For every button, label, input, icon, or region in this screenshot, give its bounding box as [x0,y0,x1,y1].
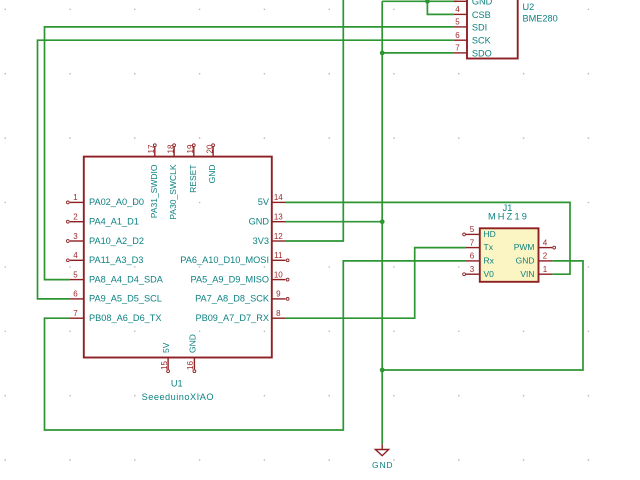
svg-text:PA8_A4_D4_SDA: PA8_A4_D4_SDA [89,274,164,284]
svg-text:17: 17 [147,144,156,153]
svg-text:GND: GND [207,165,217,184]
svg-text:8: 8 [276,309,281,318]
svg-text:1: 1 [73,193,78,202]
svg-text:6: 6 [455,31,460,40]
svg-text:7: 7 [470,238,475,247]
svg-text:9: 9 [276,290,281,299]
svg-text:3: 3 [470,265,475,274]
svg-text:13: 13 [274,213,283,222]
svg-text:GND: GND [516,256,535,266]
svg-text:MHZ19: MHZ19 [488,212,529,222]
svg-text:5: 5 [73,270,78,279]
svg-text:CSB: CSB [472,10,491,20]
svg-text:4: 4 [543,238,548,247]
svg-text:11: 11 [274,251,283,260]
svg-text:PA02_A0_D0: PA02_A0_D0 [89,197,144,207]
svg-text:PA9_A5_D5_SCL: PA9_A5_D5_SCL [89,294,162,304]
svg-text:GND: GND [472,0,493,7]
svg-text:4: 4 [455,5,460,14]
svg-text:19: 19 [186,144,195,153]
svg-text:2: 2 [543,252,548,261]
svg-text:5: 5 [455,18,460,27]
svg-text:5V: 5V [258,197,270,207]
svg-text:PA5_A9_D9_MISO: PA5_A9_D9_MISO [191,274,269,284]
svg-text:U1: U1 [171,378,183,388]
svg-text:SeeeduinoXIAO: SeeeduinoXIAO [142,392,214,402]
svg-text:SDO: SDO [472,48,492,58]
svg-text:15: 15 [160,361,169,370]
svg-text:16: 16 [186,361,195,370]
svg-text:7: 7 [73,309,78,318]
svg-text:PA11_A3_D3: PA11_A3_D3 [89,255,143,265]
svg-text:SCK: SCK [472,36,492,46]
svg-text:PA30_SWCLK: PA30_SWCLK [168,164,178,219]
svg-text:6: 6 [470,252,475,261]
svg-text:5V: 5V [161,342,171,353]
svg-text:Rx: Rx [484,256,495,266]
svg-text:PA7_A8_D8_SCK: PA7_A8_D8_SCK [195,294,270,304]
svg-text:BME280: BME280 [523,13,558,23]
svg-text:GND: GND [249,217,270,227]
svg-text:5: 5 [470,225,475,234]
svg-text:PA10_A2_D2: PA10_A2_D2 [89,236,144,246]
svg-text:V0: V0 [484,269,495,279]
svg-text:GND: GND [187,334,197,353]
svg-text:10: 10 [274,270,283,279]
svg-text:3: 3 [73,232,78,241]
svg-text:PB09_A7_D7_RX: PB09_A7_D7_RX [195,313,269,323]
svg-text:18: 18 [166,144,175,153]
svg-text:HD: HD [484,229,496,239]
svg-text:RESET: RESET [188,165,198,193]
svg-text:20: 20 [205,144,214,153]
svg-text:Tx: Tx [484,242,494,252]
svg-text:2: 2 [73,213,78,222]
svg-text:PWM: PWM [514,242,535,252]
svg-text:12: 12 [274,232,283,241]
svg-text:PA6_A10_D10_MOSI: PA6_A10_D10_MOSI [180,255,269,265]
svg-text:6: 6 [73,290,78,299]
svg-text:4: 4 [73,251,78,260]
svg-text:1: 1 [543,265,548,274]
svg-text:U2: U2 [523,2,535,12]
svg-text:SDI: SDI [472,22,487,32]
svg-text:3V3: 3V3 [253,236,269,246]
svg-text:GND: GND [372,460,393,470]
svg-text:PB08_A6_D6_TX: PB08_A6_D6_TX [89,313,162,323]
svg-text:7: 7 [455,44,460,53]
svg-text:PA4_A1_D1: PA4_A1_D1 [89,217,139,227]
svg-text:PA31_SWDIO: PA31_SWDIO [149,164,159,218]
svg-text:14: 14 [274,193,283,202]
svg-text:VIN: VIN [520,269,534,279]
